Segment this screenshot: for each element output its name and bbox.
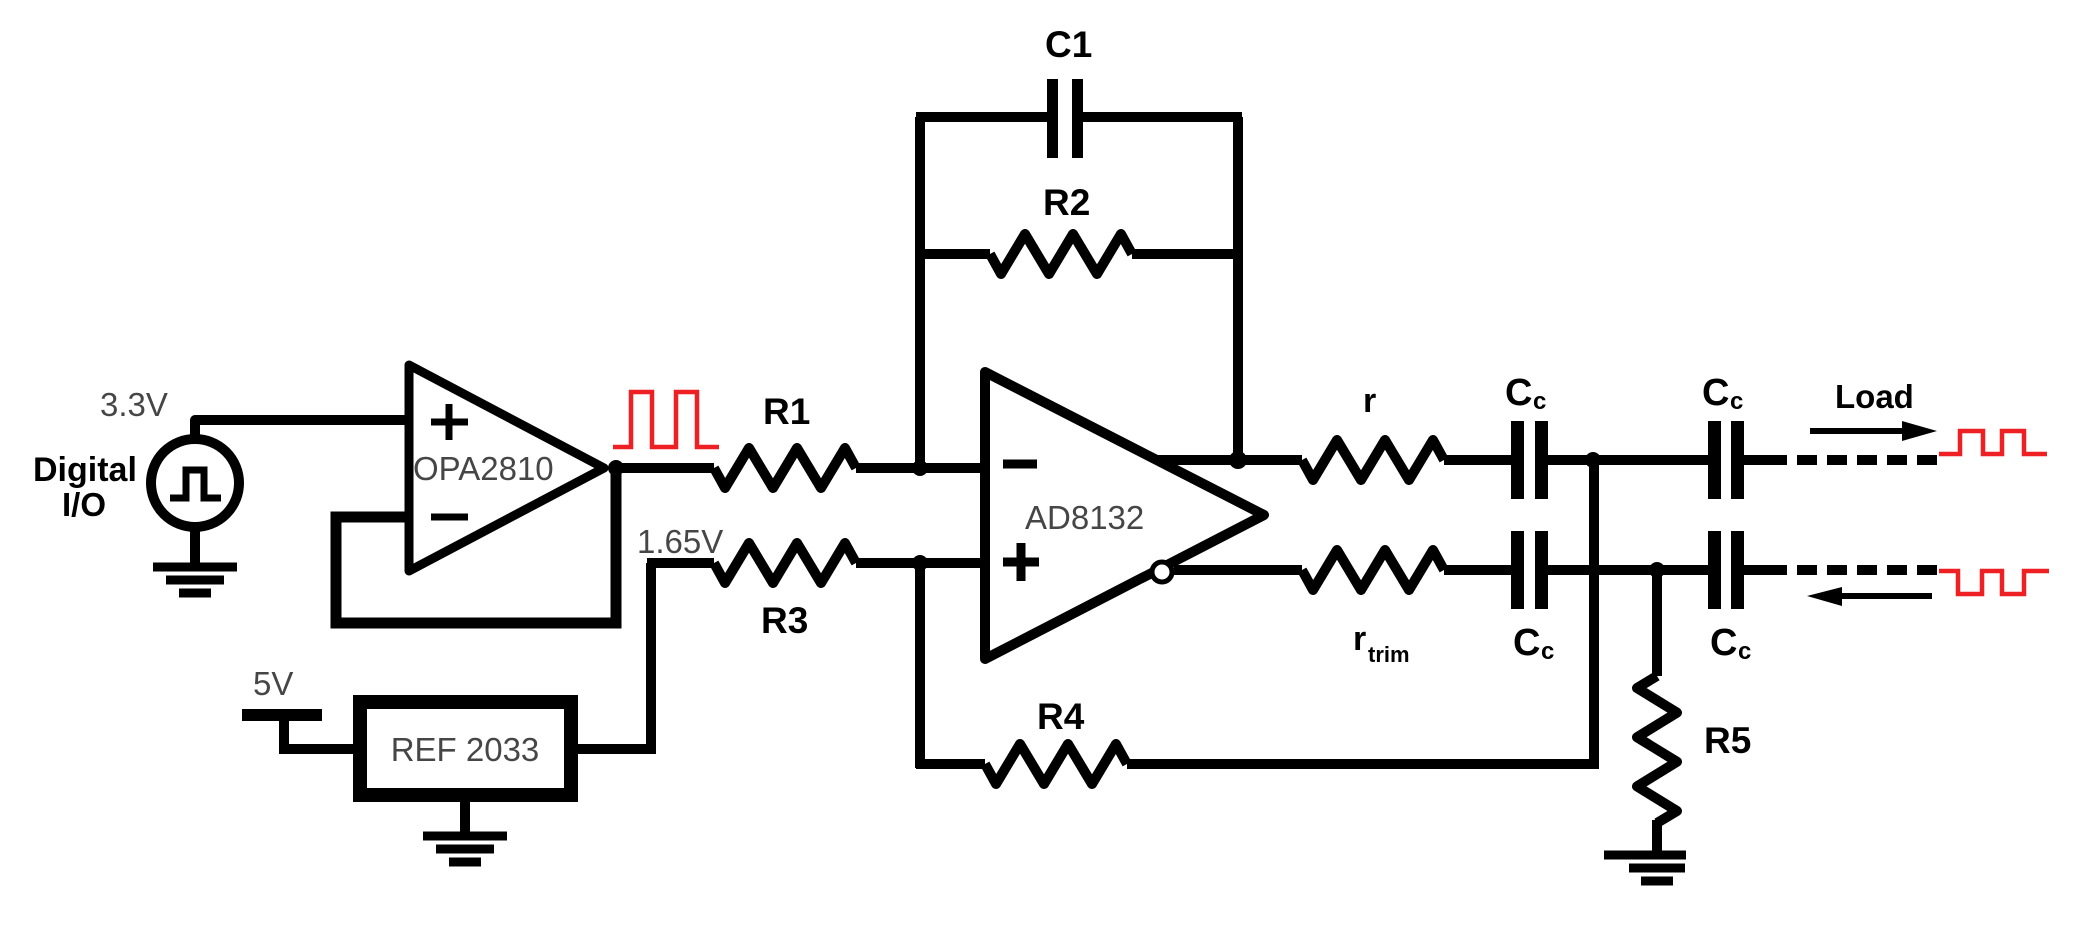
red waveform top right	[1939, 431, 2047, 454]
node bubble AD8132 inverting output	[1152, 562, 1172, 582]
svg-text:c: c	[1730, 388, 1743, 415]
wire node B down to R4 row	[915, 563, 925, 768]
node B plus input	[912, 555, 928, 571]
label Cc top second	[1702, 372, 1743, 415]
supply bar 5V	[242, 709, 322, 721]
wire C1 top row left segment	[916, 112, 1047, 122]
wire r_trim to first bottom Cc	[1444, 565, 1511, 575]
wire 5V to REF2033	[284, 715, 353, 749]
wire dashed bottom from load	[1797, 565, 1937, 575]
wire R5 tap down	[1652, 570, 1662, 676]
capacitor Cc bottom first	[1511, 531, 1548, 609]
resistor r	[1302, 440, 1444, 480]
wire REF 2033 output to 1.65V riser	[578, 563, 651, 749]
wire AD8132 top output	[1157, 455, 1302, 465]
node A minus input	[912, 460, 928, 476]
svg-text:R1: R1	[763, 391, 810, 432]
arrow to load (right)	[1810, 421, 1937, 441]
wire R2 row right segment	[1132, 249, 1242, 259]
wire dashed top to load	[1797, 455, 1937, 465]
wire R4 to right vertical riser	[1127, 460, 1594, 764]
U1 plus input symbol	[431, 404, 468, 440]
wire R2 row left segment	[916, 249, 990, 259]
ground below R5	[1604, 820, 1686, 881]
ground below REF 2033	[423, 802, 507, 862]
capacitor C1	[1047, 79, 1083, 158]
wire OPA2810 output to R1	[616, 463, 714, 473]
svg-text:c: c	[1738, 638, 1751, 665]
svg-text:Load: Load	[1835, 378, 1914, 415]
resistor R4	[985, 744, 1127, 784]
svg-text:R2: R2	[1043, 182, 1090, 223]
wire 3.3V source to OPA2810 + input	[195, 420, 409, 436]
svg-text:I/O: I/O	[62, 486, 106, 523]
label Cc bottom second	[1710, 622, 1751, 665]
resistor R2	[990, 234, 1132, 274]
svg-text:REF 2033: REF 2033	[391, 731, 540, 768]
wire R1 to AD8132 minus input	[856, 463, 985, 473]
svg-text:R4: R4	[1037, 696, 1085, 737]
U1 minus input symbol	[431, 514, 468, 521]
svg-text:3.3V: 3.3V	[100, 386, 168, 423]
wire C1 top row right segment	[1083, 112, 1242, 122]
wire R3 to AD8132 plus input	[856, 558, 985, 568]
wire 1.65V node to R3	[647, 558, 714, 568]
wire bottom second Cc to dashed	[1744, 565, 1787, 575]
U2 plus input symbol	[1003, 543, 1039, 581]
node OPA2810 output	[608, 460, 624, 476]
wire r to first top Cc	[1444, 455, 1511, 465]
wire feedback left vertical from node A up	[915, 117, 925, 468]
svg-text:C: C	[1710, 622, 1737, 664]
resistor R1	[714, 448, 856, 488]
svg-text:r: r	[1363, 382, 1376, 420]
red pulse waveform at OPA2810 output	[613, 392, 719, 447]
capacitor Cc top second	[1708, 421, 1744, 499]
svg-text:C: C	[1505, 372, 1532, 414]
svg-text:C: C	[1702, 372, 1729, 414]
node R5 tap	[1649, 562, 1665, 578]
svg-text:OPA2810: OPA2810	[413, 450, 554, 487]
svg-text:c: c	[1541, 638, 1554, 665]
resistor r_trim	[1302, 550, 1444, 590]
svg-text:5V: 5V	[253, 665, 293, 702]
source V1 Digital I/O pulse generator	[151, 439, 239, 527]
U2 minus input symbol	[1003, 460, 1037, 469]
resistor R5	[1637, 676, 1677, 823]
capacitor Cc bottom second	[1708, 531, 1744, 609]
svg-text:C1: C1	[1045, 24, 1092, 65]
voltage reference U3 REF 2033	[360, 702, 571, 795]
svg-text:trim: trim	[1368, 642, 1410, 667]
wire feedback right vertical down to output	[1233, 117, 1243, 460]
label Cc bottom first	[1513, 622, 1554, 665]
label r trim	[1353, 620, 1410, 667]
svg-text:c: c	[1533, 388, 1546, 415]
wire top Cc to second Cc	[1548, 455, 1708, 465]
svg-text:1.65V: 1.65V	[637, 523, 723, 560]
arrow from load (left)	[1807, 587, 1932, 606]
op-amp U1 OPA2810	[409, 365, 604, 571]
wire bottom Cc to second Cc	[1548, 565, 1708, 575]
wire OPA2810 feedback loop output to minus input	[336, 468, 616, 623]
svg-text:AD8132: AD8132	[1025, 499, 1144, 536]
label Cc top first	[1505, 372, 1546, 415]
svg-text:r: r	[1353, 620, 1366, 658]
op-amp U2 AD8132	[985, 372, 1264, 659]
wire R4 row left segment	[916, 759, 985, 769]
svg-text:R5: R5	[1704, 720, 1751, 761]
svg-text:C: C	[1513, 622, 1540, 664]
wire top second Cc to dashed	[1744, 455, 1787, 465]
wire AD8132 bottom output	[1174, 565, 1302, 575]
svg-text:Digital: Digital	[33, 451, 137, 489]
capacitor Cc top first	[1511, 421, 1548, 499]
resistor R3	[714, 543, 856, 583]
node feedback to output	[1229, 451, 1247, 469]
node top mid	[1585, 452, 1601, 468]
red waveform bottom right	[1939, 571, 2049, 594]
ground below Digital I/O source	[153, 527, 237, 593]
svg-text:R3: R3	[761, 600, 808, 641]
